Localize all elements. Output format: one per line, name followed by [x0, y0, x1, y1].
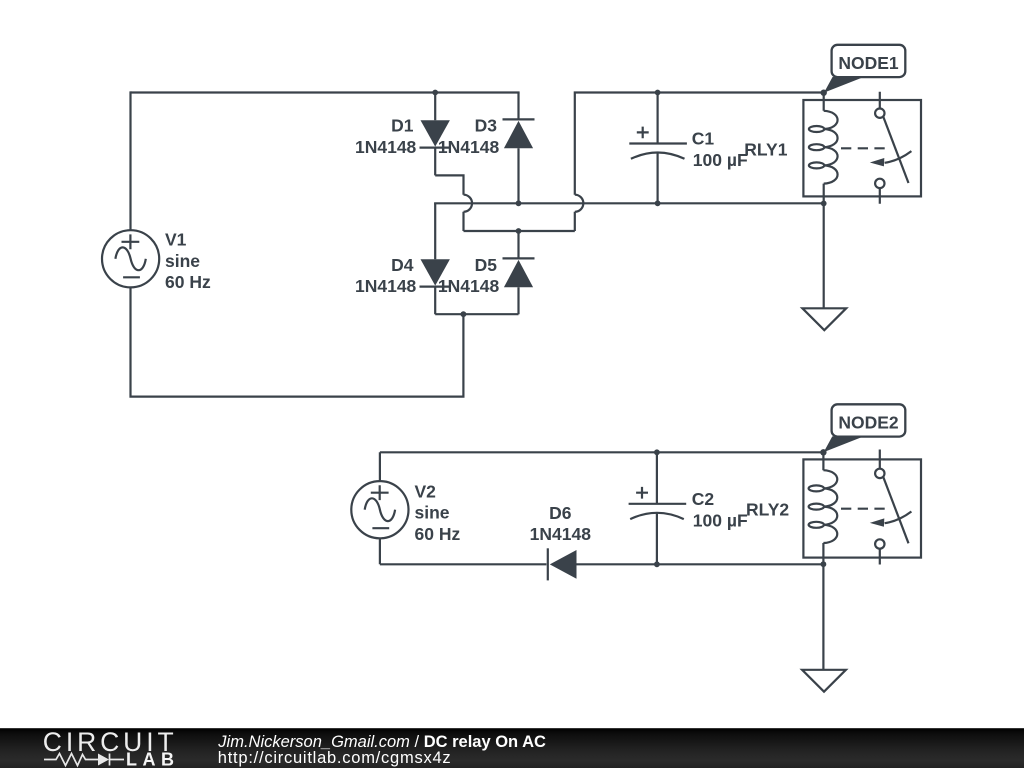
junction dot top rail 2 at relay coil: [821, 449, 827, 455]
diode D5: [503, 231, 535, 314]
svg-text:V1: V1: [165, 230, 187, 250]
diode D1: [420, 93, 451, 176]
diode D6: [548, 548, 577, 580]
wire V1 top lead: [129, 91, 131, 230]
svg-text:D3: D3: [475, 116, 498, 136]
svg-text:1N4148: 1N4148: [530, 524, 592, 544]
diode D3: [503, 93, 535, 204]
wire DC riser x=574.8 with hop, joining top rail to relay: [575, 93, 824, 232]
junction dot node A at C1: [655, 200, 661, 206]
capacitor C1: [629, 93, 687, 204]
label V2: [415, 481, 461, 543]
svg-text:60 Hz: 60 Hz: [165, 272, 211, 292]
svg-text:sine: sine: [165, 251, 200, 271]
junction dot top rail 2 at C2: [654, 449, 660, 455]
label V1: [165, 230, 211, 293]
junction dot top rail at D1: [432, 90, 438, 96]
junction dot bottom rail 2 at relay coil: [821, 561, 827, 567]
svg-text:D6: D6: [549, 503, 572, 523]
label C2: [692, 489, 748, 531]
CircuitLab logo doodle resistor and diode: [44, 754, 124, 766]
svg-text:60 Hz: 60 Hz: [415, 524, 461, 544]
capacitor C2: [629, 452, 687, 564]
voltage source V1: [102, 230, 159, 287]
wire bottom rail 2 right of D6: [577, 563, 824, 565]
ground top: [802, 203, 846, 330]
svg-text:LAB: LAB: [126, 750, 180, 768]
junction dot bottom rail 2 at C2: [654, 561, 660, 567]
label D6: [530, 503, 592, 544]
svg-text:D4: D4: [391, 255, 414, 275]
svg-text:V2: V2: [415, 481, 437, 501]
junction dot node B at D5: [516, 228, 522, 234]
diode D4: [420, 203, 451, 314]
svg-text:D1: D1: [391, 116, 414, 136]
label D4: [355, 255, 417, 296]
svg-text:sine: sine: [415, 503, 450, 523]
wire bottom rail 2 left of D6: [380, 563, 547, 565]
junction dot bridge bottom: [461, 311, 467, 317]
wire top rail from V1 to D1/D3: [131, 91, 520, 93]
svg-text:1N4148: 1N4148: [355, 276, 417, 296]
svg-text:D5: D5: [475, 255, 498, 275]
label D5: [438, 255, 500, 296]
junction dot node A at D3: [516, 200, 522, 206]
label C1: [692, 129, 748, 171]
label D1: [355, 116, 417, 157]
svg-text:100 µF: 100 µF: [693, 150, 748, 170]
relay RLY2: [803, 450, 921, 565]
wire node A mid rail: [435, 202, 824, 203]
node flag NODE2: [820, 404, 905, 455]
svg-text:1N4148: 1N4148: [438, 137, 500, 157]
wire V1 bottom loop to bridge bottom node: [131, 287, 464, 396]
wire node B rail: [464, 230, 575, 232]
svg-text:Jim.Nickerson_Gmail.com / DC r: Jim.Nickerson_Gmail.com / DC relay On AC: [217, 733, 546, 751]
junction dot DC rail at C1: [655, 90, 661, 96]
svg-text:RLY1: RLY1: [744, 140, 787, 160]
svg-text:1N4148: 1N4148: [438, 276, 500, 296]
label D3: [438, 116, 500, 157]
wire top rail 2 from V2 to relay RLY2: [380, 451, 824, 453]
relay RLY1: [803, 92, 921, 204]
junction dot node A at relay coil: [821, 201, 827, 207]
svg-text:NODE1: NODE1: [838, 53, 899, 73]
svg-text:http://circuitlab.com/cgmsx4z: http://circuitlab.com/cgmsx4z: [218, 749, 452, 767]
svg-text:1N4148: 1N4148: [355, 137, 417, 157]
svg-text:C2: C2: [692, 489, 715, 509]
svg-text:NODE2: NODE2: [838, 413, 899, 433]
wire bridge bottom rail: [435, 313, 518, 315]
wire D1 jog to node B with hop over node A rail: [435, 175, 472, 231]
svg-text:RLY2: RLY2: [746, 500, 789, 520]
svg-text:C1: C1: [692, 129, 715, 149]
node flag NODE1: [821, 45, 906, 96]
svg-text:100 µF: 100 µF: [693, 511, 748, 531]
ground bottom: [802, 564, 846, 692]
footer bar: [0, 728, 1024, 768]
voltage source V2: [351, 452, 408, 564]
